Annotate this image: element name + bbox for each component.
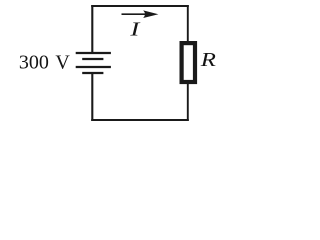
label R	[200, 48, 217, 70]
resistor R box	[182, 43, 195, 82]
battery V1 plate short	[82, 58, 103, 60]
wire right upper	[187, 5, 189, 43]
svg-text:I: I	[129, 19, 140, 41]
wire left upper	[91, 5, 93, 53]
svg-text:300 V: 300 V	[19, 51, 70, 73]
wire bottom	[91, 119, 189, 121]
battery V1 plate short bottom	[82, 72, 103, 74]
battery V1 plate long lower	[76, 66, 111, 68]
wire left lower	[91, 73, 93, 121]
battery V1 plate long top	[76, 52, 111, 54]
current arrow	[122, 10, 159, 18]
wire top	[91, 5, 189, 7]
label I	[129, 19, 140, 41]
svg-text:R: R	[200, 48, 217, 70]
wire right lower	[187, 82, 189, 121]
